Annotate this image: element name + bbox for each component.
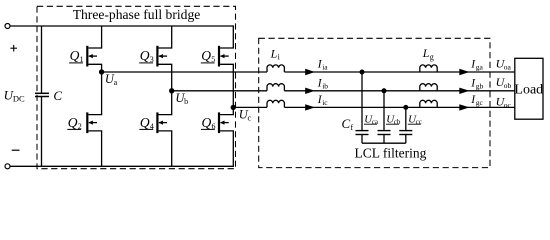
wire left DC rail lower segment [41,97,43,167]
svg-text:ib: ib [322,81,328,90]
wire phase b line [172,90,267,92]
wire capacitor b bottom stub [383,135,385,144]
node Ub junction dot [169,88,174,93]
inductor Li phase b [267,84,284,91]
wire phase c line [233,106,267,108]
terminal top-left (+) [5,24,10,29]
wire capacitor common bar [362,142,406,144]
svg-text:g: g [430,52,434,61]
capacitor C [35,93,49,96]
junction dot tap c [403,105,408,110]
svg-text:Q: Q [140,115,150,130]
capacitor Cf phase c plates [399,131,412,135]
transistor Q2 [87,72,101,166]
svg-text:a: a [114,78,118,87]
svg-text:ga: ga [476,63,484,72]
inductor Lg phase b [420,84,437,91]
svg-text:ob: ob [504,81,512,90]
svg-text:cb: cb [394,118,401,126]
wire left DC rail upper segment [41,26,43,93]
transistor Q1 [87,27,101,73]
wire capacitor a bottom stub [361,135,363,144]
capacitor Cf phase b plates [378,131,391,135]
dashed box: LCL filter section [259,38,490,167]
arrow Igb [459,88,469,94]
node Uc junction dot [231,105,236,110]
svg-text:ca: ca [372,118,379,126]
svg-text:c: c [248,113,252,122]
wire capacitor tap a [361,72,363,131]
inductor Li phase c [267,100,284,107]
svg-text:DC: DC [13,94,25,104]
transistor Q3 [157,27,171,91]
svg-text:L: L [270,47,278,61]
svg-text:oc: oc [504,100,512,109]
transistor Q6 [219,107,233,166]
inductor Lg phase a [420,65,437,72]
junction dot tap b [382,88,387,93]
plus sign [10,45,17,52]
svg-text:Q: Q [140,48,150,63]
arrow Iib [305,88,315,94]
load box [515,58,543,119]
terminal bottom-left (-) [5,164,10,169]
svg-text:f: f [351,123,354,132]
dashed box: three-phase full bridge [37,6,236,168]
inductor Lg phase c [420,100,437,107]
svg-text:ic: ic [322,98,328,107]
arrow Iia [305,69,315,75]
svg-text:LCL filtering: LCL filtering [354,145,426,160]
svg-text:gc: gc [476,98,484,107]
arrow Igc [459,104,469,110]
minus sign [12,149,20,151]
inductor Li phase a [267,65,284,72]
svg-text:oa: oa [504,62,512,71]
wire phase a line [102,71,267,73]
transistor Q4 [157,91,171,167]
svg-text:C: C [342,116,351,131]
arrow Iic [305,104,315,110]
svg-text:L: L [422,46,430,60]
wire bottom DC rail [10,165,234,167]
wire top DC rail [10,25,234,27]
svg-text:cc: cc [416,118,422,126]
transistor Q5 [219,27,233,108]
svg-text:Q: Q [201,48,211,63]
svg-text:ia: ia [322,63,328,72]
svg-text:b: b [184,97,188,106]
arrow Iga [459,69,469,75]
svg-text:i: i [278,52,281,61]
capacitor Cf phase a plates [356,131,369,135]
node Ua junction dot [99,69,104,74]
junction dot tap a [360,70,365,75]
svg-text:Q: Q [202,115,212,130]
svg-text:C: C [53,88,62,103]
svg-text:gb: gb [476,81,484,90]
wire capacitor tap c [405,107,407,130]
wire capacitor tap b [383,91,385,131]
svg-text:Three-phase full bridge: Three-phase full bridge [73,7,201,22]
svg-text:Q: Q [68,115,78,130]
svg-text:Load: Load [514,82,543,97]
svg-text:Q: Q [70,48,80,63]
wire capacitor c bottom stub [405,135,407,144]
